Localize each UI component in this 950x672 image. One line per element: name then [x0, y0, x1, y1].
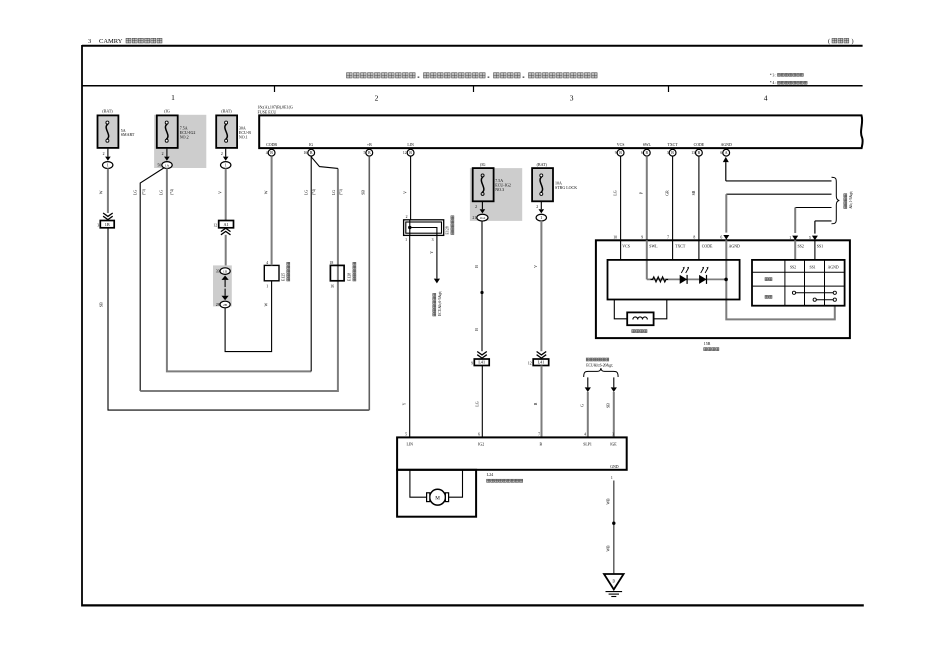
svg-text:(*3): (*3) [142, 188, 146, 195]
connector circle 1 below F1 [103, 162, 113, 169]
svg-text:B: B [645, 151, 648, 155]
svg-text:9: 9 [471, 361, 473, 365]
column tick 2-3 [473, 86, 475, 92]
svg-text:5: 5 [363, 151, 365, 155]
L24 label [487, 472, 523, 483]
svg-text:(*4): (*4) [170, 188, 174, 195]
svg-text:A1: A1 [224, 222, 229, 227]
L24 pin 6 IG2 [478, 433, 484, 447]
svg-text:28: 28 [216, 303, 220, 307]
svg-text:NO.2: NO.2 [180, 134, 189, 139]
svg-text:CODE: CODE [702, 244, 713, 248]
motor M [427, 489, 449, 505]
table row label fully-closed [765, 295, 772, 298]
svg-text:SWL: SWL [649, 244, 658, 248]
svg-text:1: 1 [266, 285, 268, 289]
FUSE ECU pin CODE 13(B) [691, 143, 705, 156]
svg-text:18: 18 [330, 261, 334, 265]
LED1 in E5R [680, 267, 689, 284]
svg-text:(BAT): (BAT) [221, 109, 232, 114]
svg-text:B: B [409, 151, 412, 155]
svg-text:7: 7 [667, 236, 669, 240]
connector E125 box [264, 261, 279, 289]
shield connector L41 right chevrons [537, 352, 547, 359]
svg-text:TXCT: TXCT [668, 143, 679, 147]
svg-text:7: 7 [538, 433, 540, 437]
connector A1 chevrons up [221, 228, 231, 235]
svg-text:21: 21 [472, 216, 476, 220]
svg-text:1A: 1A [165, 163, 170, 167]
power system brace [832, 177, 840, 224]
svg-text:VCS: VCS [622, 244, 630, 248]
svg-text:* 3 :: * 3 : [770, 73, 777, 77]
note *4 [770, 81, 807, 85]
frame title band divider [82, 85, 863, 87]
svg-text:LG: LG [133, 190, 137, 195]
svg-text:Y: Y [403, 402, 407, 405]
motor wires [410, 470, 463, 497]
connector E128b box on LG(*3) wire [330, 261, 345, 289]
svg-text:3: 3 [97, 224, 99, 228]
FUSE ECU block box [259, 115, 863, 148]
wire W gray from CODB pin to E125 [271, 156, 273, 265]
svg-text:* 4 :: * 4 : [770, 81, 777, 85]
svg-text:SB: SB [100, 302, 104, 307]
arrow from fuse F2 [164, 149, 170, 161]
svg-text:LG: LG [475, 401, 479, 406]
connector E128 wide box [404, 220, 444, 236]
E5R power switch box [596, 240, 850, 338]
FUSE ECU pin AGND 6(A) [720, 143, 732, 156]
svg-text:6: 6 [720, 236, 722, 240]
E5R internal wire AGND gray [726, 240, 835, 319]
wire B from 1G2 to shield connector L41 left [481, 221, 483, 351]
L24 box [397, 437, 627, 469]
table contact SS2-AGND [792, 291, 836, 294]
fuse F1 5A SMART (BAT) [98, 109, 135, 148]
svg-text:6: 6 [478, 433, 480, 437]
L24 pin 4 SLP1 [583, 433, 592, 447]
svg-text:1: 1 [107, 162, 109, 167]
svg-text:AGND: AGND [721, 143, 732, 147]
table contact SS1-AGND [813, 298, 836, 301]
svg-text:B: B [619, 151, 622, 155]
wire LG (*3) gray bottom and right vertical through E128b [140, 169, 338, 392]
wire P gray from SWL pin [646, 156, 648, 240]
svg-text:IGE: IGE [610, 442, 617, 446]
wire Y from E128 pin1 to L24 LIN [409, 235, 411, 437]
svg-text:FUSE ECU: FUSE ECU [258, 109, 277, 114]
svg-text:6: 6 [720, 151, 722, 155]
L24 pin 5 LIN [405, 433, 413, 447]
svg-text:NO.1: NO.1 [239, 134, 248, 139]
connector E128 label [446, 216, 454, 235]
svg-text:WB: WB [606, 545, 610, 552]
svg-text:B: B [698, 151, 701, 155]
svg-text:LG: LG [304, 190, 308, 195]
svg-text:LIN: LIN [407, 143, 414, 147]
table column lines [785, 260, 825, 306]
wire Y from E128 pin3 with arrow to power management ECU [434, 235, 440, 283]
svg-text:33: 33 [216, 270, 220, 274]
svg-text:2: 2 [406, 215, 408, 219]
FUSE ECU pin LIN 12(B) [403, 143, 414, 156]
svg-text:CODB: CODB [266, 143, 277, 147]
wire GR from TXCT pin [672, 156, 674, 240]
svg-text:(: ( [828, 38, 830, 45]
svg-text:LG: LG [332, 190, 336, 195]
E5R internal wire VCS [620, 240, 622, 260]
svg-text:NO.3: NO.3 [495, 187, 504, 192]
gray link SWL to resistor to LEDs to AGND [647, 278, 726, 280]
svg-text:IG2: IG2 [478, 442, 484, 446]
svg-text:SB: SB [362, 190, 366, 195]
svg-text:AGND: AGND [828, 265, 839, 269]
frame left border [81, 45, 83, 607]
svg-text:9: 9 [615, 151, 617, 155]
svg-text:3: 3 [432, 238, 434, 242]
page header text 3 CAMRY [88, 38, 162, 45]
svg-text:9: 9 [641, 236, 643, 240]
fuse F5 10A STRG LOCK (BAT) [532, 162, 577, 201]
wire from brace to E5R AGND pin horizontal [726, 193, 831, 195]
svg-text:1D: 1D [223, 269, 228, 273]
svg-text:B: B [475, 328, 479, 331]
label LG left (*3) [133, 188, 146, 195]
connector circle 1G2 below F4 [472, 214, 488, 221]
svg-text:B: B [540, 442, 543, 446]
wire SB vertical at +B pin [368, 156, 370, 410]
svg-text:E128: E128 [446, 226, 450, 234]
E5R internal wire SS2 gray [794, 240, 796, 260]
wire SS1 from brace [812, 221, 832, 240]
svg-text:1G2: 1G2 [479, 216, 485, 220]
wire from 2B U route to E125 [225, 281, 272, 352]
antenna coil box [627, 312, 653, 325]
LED2 in E5R [699, 267, 708, 284]
wire V gray from STRG circle to L41 right [540, 221, 542, 351]
svg-text:2: 2 [536, 205, 538, 209]
svg-text:8: 8 [693, 236, 695, 240]
wire WB from L24 GND to ground [613, 481, 615, 574]
connector circle 1A below F2 [157, 162, 172, 169]
svg-text:1: 1 [405, 238, 407, 242]
svg-text:SS2: SS2 [790, 265, 796, 269]
svg-text:SS2: SS2 [798, 244, 804, 248]
svg-text:W: W [264, 303, 268, 307]
frame top border [82, 45, 863, 47]
note *3 [770, 73, 804, 77]
svg-text:B: B [310, 151, 313, 155]
svg-text:VCS: VCS [617, 143, 625, 147]
junction dot in E128 [408, 226, 411, 229]
svg-text:&lt;6-5&gt;: &lt;6-5&gt; [438, 291, 442, 309]
wire W from F1 to shield connector 1B [107, 168, 109, 213]
wire inside E128 [410, 220, 437, 236]
svg-text:GND: GND [610, 465, 619, 469]
svg-text:(IG: (IG [164, 109, 170, 114]
svg-text:B: B [270, 151, 273, 155]
wire V gray from F3 to connector A1 [225, 168, 227, 220]
svg-text:SMART: SMART [121, 132, 135, 137]
wire B gray from L41 right to L24 pin7 [541, 366, 543, 438]
svg-text:B: B [368, 151, 371, 155]
ground symbol D [604, 574, 624, 597]
wire V gray from A1 to inline connector 1D [225, 235, 227, 267]
wire V from LIN pin to E128 connector [410, 156, 412, 220]
wire SS2 from brace [792, 208, 831, 241]
svg-text:GR: GR [666, 190, 670, 196]
inline connector circle 2B [216, 301, 230, 308]
svg-text:B: B [534, 402, 538, 405]
L24 pin 7 B [538, 433, 542, 447]
shield connector L41 left box [471, 359, 489, 366]
E5R internal wire TXCT [672, 240, 674, 260]
svg-text:CAMRY: CAMRY [99, 38, 123, 45]
svg-text:SS1: SS1 [817, 244, 823, 248]
label LG (*3) under IG branch [332, 188, 343, 195]
svg-text:G: G [581, 404, 585, 407]
svg-text:V: V [218, 191, 222, 194]
frame bottom border [82, 604, 864, 606]
arrow from fuse F5 [539, 201, 545, 213]
svg-text:1: 1 [171, 93, 175, 102]
svg-text:12: 12 [403, 151, 407, 155]
svg-text:IG: IG [309, 143, 313, 147]
FUSE ECU block header text [258, 105, 293, 115]
wire SB from 1B down-around to +B pin (U route) [108, 228, 369, 410]
svg-text:15R: 15R [704, 341, 711, 346]
svg-text:12: 12 [213, 224, 217, 228]
svg-text:): ) [852, 38, 854, 45]
wire diagonal from IG pin to LG (*3) branch [311, 157, 338, 169]
svg-text:12: 12 [528, 361, 532, 365]
reference text power management ECU 6-20 [586, 358, 613, 367]
svg-text:TXCT: TXCT [675, 244, 686, 248]
svg-text:50: 50 [157, 163, 161, 167]
antenna coil wires [614, 300, 667, 319]
fuse F4 7.5A ECU-IG2 NO.3 (IG) with gray zone [470, 162, 522, 221]
svg-text:CODE: CODE [694, 143, 705, 147]
svg-text:&lt;6-20&gt;: &lt;6-20&gt; [594, 363, 613, 367]
svg-text:3: 3 [570, 94, 574, 103]
arrow into IGE wire [611, 377, 617, 392]
FUSE ECU pin +B 5(B) [363, 143, 372, 156]
column tick 1-2 [274, 86, 276, 92]
wire LG (*4) gray from 1A circle to U bottom [167, 168, 311, 371]
table row lines [752, 272, 845, 286]
svg-text:L41: L41 [538, 360, 545, 365]
arrow from fuse F3 [223, 149, 229, 161]
svg-text:13: 13 [691, 151, 695, 155]
svg-text:LIN: LIN [407, 442, 414, 446]
svg-text:AGND: AGND [729, 244, 740, 248]
svg-text:(BAT): (BAT) [537, 162, 548, 167]
arrow from fuse F4 [480, 201, 486, 213]
svg-text:2: 2 [375, 94, 379, 103]
svg-text:SS1: SS1 [810, 265, 816, 269]
svg-text:1: 1 [611, 476, 613, 480]
svg-text:SB: SB [607, 403, 611, 408]
svg-text:4: 4 [266, 151, 268, 155]
E5R label [704, 341, 719, 350]
wire LG (*3) from 1A circle down left vertical [140, 168, 164, 392]
svg-text:4: 4 [584, 433, 586, 437]
svg-text:Y: Y [430, 251, 434, 254]
E5R internal wire SS1 [814, 240, 816, 260]
svg-text:W: W [100, 190, 104, 194]
wire AGND to power system brace [726, 180, 832, 182]
connector E125 label [282, 262, 290, 281]
shield connector L41 right box [528, 359, 549, 366]
arrow from fuse F1 [105, 149, 111, 161]
label LG (*4) under IG pin [304, 188, 316, 195]
svg-text:(*3): (*3) [339, 188, 343, 195]
svg-text:V: V [534, 265, 538, 268]
svg-text:5: 5 [405, 433, 407, 437]
FUSE ECU pin TXCT 3(B) [667, 143, 679, 156]
svg-text:1: 1 [225, 162, 227, 167]
reference text power management ECU 6-5 [433, 291, 442, 316]
svg-text:STRG LOCK: STRG LOCK [555, 185, 577, 190]
wire G gray to SLP1 [587, 392, 589, 437]
svg-text:3: 3 [88, 38, 91, 45]
svg-text:3: 3 [667, 151, 669, 155]
diagram title [347, 73, 598, 78]
junction dot on B wire [480, 291, 483, 294]
wire gray down to E5R AGND pin [723, 194, 729, 239]
wire LG (*4) right vertical up to IG pin [310, 156, 312, 371]
junction dot LED to AGND [724, 278, 728, 282]
inline connector pair 1D/2B gray zone [213, 265, 232, 306]
svg-text:SWL: SWL [643, 143, 652, 147]
FUSE ECU pin VCS 9(B) [615, 143, 625, 156]
svg-text:1: 1 [540, 215, 542, 220]
E5R key module sub box [608, 260, 740, 300]
wire LG from L41 left to L24 pin6 [481, 366, 483, 438]
column tick 3-4 [668, 86, 670, 92]
svg-text:+B: +B [367, 143, 372, 147]
L24 pin 3 IGE [610, 433, 617, 447]
resistor in E5R [651, 277, 669, 282]
wire SB gray to IGE [613, 392, 615, 437]
FUSE ECU pin SWL 6(B) [641, 143, 652, 156]
E5R internal wire CODE [698, 240, 700, 260]
svg-text:B: B [671, 151, 674, 155]
svg-text:SB: SB [692, 190, 696, 195]
svg-text:4: 4 [764, 94, 768, 103]
svg-text:2: 2 [162, 152, 164, 156]
svg-text:M: M [435, 495, 440, 501]
inline connector circle 1D [216, 268, 230, 275]
wire LG from VCS pin [620, 156, 622, 240]
table row label fully-open [765, 278, 772, 281]
inline connector arrows [222, 276, 229, 301]
E5R internal wire SWL gray [646, 240, 648, 279]
svg-text:L24: L24 [487, 472, 494, 477]
svg-text:16: 16 [304, 151, 308, 155]
svg-text:(BAT): (BAT) [102, 109, 113, 114]
shield connector L41 left chevrons [477, 352, 487, 359]
brace over SLP1 IGE wires [584, 368, 618, 377]
svg-text:1B: 1B [105, 222, 110, 227]
svg-text:LG: LG [159, 190, 163, 195]
svg-text:16: 16 [330, 285, 334, 289]
power system label [844, 191, 853, 209]
svg-text:6: 6 [641, 151, 643, 155]
svg-text:2: 2 [475, 205, 477, 209]
svg-text:2: 2 [103, 152, 105, 156]
FUSE ECU pin CODB 4(B) [266, 143, 278, 156]
svg-text:10: 10 [613, 236, 617, 240]
shield connector 1B box [97, 221, 114, 228]
svg-text:(IG: (IG [480, 162, 486, 167]
svg-text:E125: E125 [282, 273, 286, 281]
connector circle 1 below F5 [536, 214, 546, 221]
wire SB from CODE pin [698, 156, 700, 240]
svg-text:V: V [403, 191, 407, 194]
svg-text:4: 4 [266, 261, 268, 265]
svg-text:LG: LG [614, 190, 618, 195]
antenna coil label [632, 330, 647, 333]
shield connector 1B chevrons [103, 213, 113, 220]
svg-text:B: B [475, 265, 479, 268]
L24 GND pin [610, 465, 619, 480]
page header continuation note [828, 38, 854, 45]
svg-text:2: 2 [221, 152, 223, 156]
svg-text:L41: L41 [478, 360, 485, 365]
L24 motor sub box [397, 470, 476, 517]
label LG right (*4) [159, 188, 173, 195]
FUSE ECU pin IG 16(B) [304, 143, 315, 156]
svg-text:E128: E128 [348, 273, 352, 281]
arrow into SLP1 wire [585, 377, 591, 392]
svg-text:&lt;1-5&gt;: &lt;1-5&gt; [849, 191, 853, 209]
svg-text:D: D [612, 579, 615, 583]
svg-text:W: W [265, 190, 269, 194]
connector E128b label [348, 262, 356, 281]
arrow up into AGND pin [723, 157, 729, 181]
svg-text:A: A [725, 151, 728, 155]
fuse F3 30A ECU-B NO.1 (BAT) [216, 109, 251, 148]
antenna coil symbol [633, 317, 647, 320]
svg-text:SLP1: SLP1 [583, 442, 592, 446]
connector circle 1 below F3 [221, 162, 231, 169]
svg-text:WB: WB [606, 498, 610, 505]
svg-text:(*4): (*4) [312, 188, 316, 195]
fuse F2 7.5A ECU-IG2 NO.2 (IG) with gray zone [154, 109, 206, 169]
E5R contact table box [752, 260, 845, 306]
svg-text:3: 3 [612, 433, 614, 437]
junction dot on WB wire [612, 522, 615, 525]
connector A1 box [213, 221, 233, 228]
